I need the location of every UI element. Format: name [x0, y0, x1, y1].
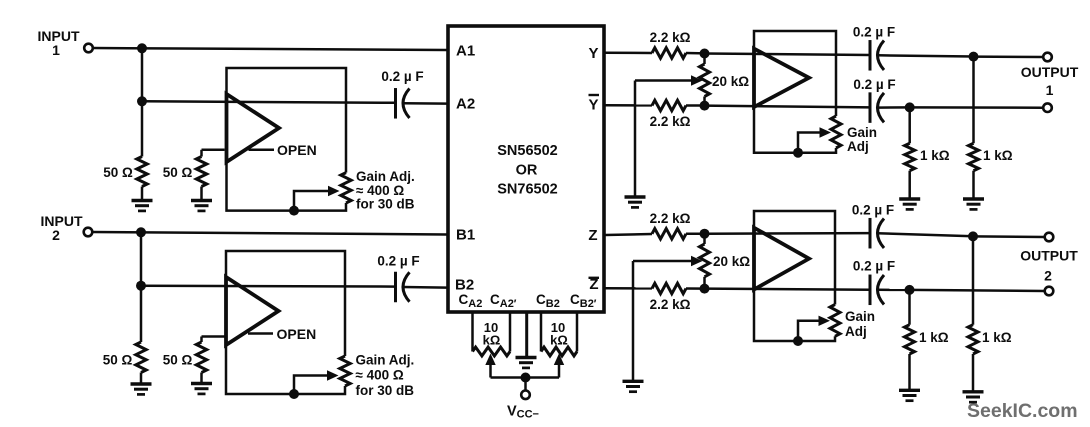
svg-text:0.2 µ F: 0.2 µ F [853, 77, 895, 92]
svg-text:B1: B1 [456, 227, 475, 244]
wiper arrow U4 [819, 316, 831, 326]
wire pin Z to resistor [606, 234, 653, 235]
wire OPEN stub U1 [249, 149, 275, 152]
op-amp U3 [754, 49, 809, 107]
svg-text:B2: B2 [455, 277, 474, 294]
wire cap to output node [878, 55, 974, 56]
feedback box U1 bottom [227, 162, 347, 211]
wire 20k pot bottom to node [703, 97, 706, 106]
capacitor 0.2uF B2 coupling [394, 272, 397, 303]
wire A2 line through amp to coupling cap [142, 101, 396, 103]
wire 20k wiper (Z) [633, 260, 692, 263]
junction node on input2 line [136, 227, 146, 237]
feedback box U3 top [754, 31, 836, 116]
capacitor 0.2uF (Zbar out) [869, 275, 872, 306]
wire junction down to B2 line [140, 232, 143, 285]
wire 1k to ground [908, 171, 911, 199]
potentiometer Gain Adj 400 ohm U2 [340, 356, 350, 386]
pin stub CB2 [540, 313, 543, 352]
svg-text:A2: A2 [456, 96, 475, 113]
svg-text:20 kΩ: 20 kΩ [713, 254, 750, 269]
wire resistor to ground [200, 373, 203, 384]
svg-text:2: 2 [52, 227, 60, 243]
wire wiper bus [491, 376, 560, 379]
resistor 1k (Z load) [968, 325, 978, 354]
svg-text:20 kΩ: 20 kΩ [712, 74, 749, 89]
svg-text:1 kΩ: 1 kΩ [919, 330, 949, 345]
svg-text:Y: Y [588, 97, 598, 114]
wiper arrow 10k B [554, 354, 564, 366]
svg-text:2: 2 [1044, 268, 1052, 284]
svg-text:1: 1 [1046, 82, 1054, 98]
wire junction down to resistor [140, 286, 143, 342]
ground [132, 199, 153, 202]
svg-text:2.2 kΩ: 2.2 kΩ [650, 114, 691, 129]
ground pin stub (center) [525, 313, 528, 358]
feedback box U2 left/top [226, 251, 345, 356]
ground (IC center pin) [516, 356, 537, 359]
svg-text:Z: Z [588, 227, 597, 244]
wire to VCC terminal [524, 378, 527, 391]
wire node to terminal [973, 235, 1045, 238]
ground (20k wiper) [625, 195, 646, 198]
wire node down to 1k (Y) [972, 57, 975, 144]
wire 20k wiper [635, 79, 692, 82]
junction node output1 bottom [905, 102, 915, 112]
wire cap to output node [878, 233, 974, 236]
wire resistor to node [686, 52, 705, 55]
svg-text:1: 1 [52, 42, 60, 58]
resistor 50 ohm (U1 bias) [196, 157, 206, 187]
wire Y node through amp to cap [705, 54, 871, 56]
wire 1k to ground [972, 171, 975, 199]
wiper arrow U2 [327, 370, 339, 380]
junction node output1 top [969, 52, 979, 62]
wire node down to 1k (Ybar) [908, 107, 911, 143]
svg-text:INPUT: INPUT [41, 213, 83, 229]
wiper arrow U1 [328, 186, 340, 196]
capacitor 0.2uF (Z out) [869, 218, 872, 249]
ground (1k Y) [963, 197, 984, 200]
resistor 1k (Ybar load) [905, 143, 915, 170]
svg-text:50 Ω: 50 Ω [163, 165, 193, 180]
svg-text:Adj: Adj [845, 324, 867, 339]
feedback box U4 top [754, 211, 835, 305]
potentiometer Gain Adj 400 ohm U1 [341, 173, 351, 203]
resistor 2.2k (Z) [652, 229, 686, 239]
wire wiper U2 [294, 376, 327, 395]
wire cap to output node [878, 289, 910, 292]
wiper arrow 20k [691, 75, 703, 85]
wire node to terminal [974, 55, 1044, 58]
IC SN56502/SN76502 body [448, 26, 604, 312]
resistor 50 ohm (input2 termination) [136, 342, 146, 373]
svg-text:≈ 400 Ω: ≈ 400 Ω [356, 368, 404, 383]
svg-text:OPEN: OPEN [277, 326, 317, 342]
input terminal 1 [84, 44, 93, 53]
wire resistor to node [686, 104, 705, 107]
wire node to 20k pot top [703, 54, 706, 65]
pin stub CA2p [509, 313, 512, 352]
terminal VCC- [521, 391, 530, 400]
ground (1k Z) [963, 390, 984, 393]
feedback box U1 left/top [227, 68, 347, 173]
svg-text:0.2 µ F: 0.2 µ F [852, 203, 894, 218]
svg-text:Gain Adj.: Gain Adj. [356, 353, 415, 368]
wire wiper U4 [798, 321, 819, 341]
svg-text:Gain: Gain [845, 309, 875, 324]
feedback box U2 bottom [226, 345, 345, 394]
op-amp U1 (unused half, OPEN) [227, 94, 280, 162]
svg-text:0.2 µ F: 0.2 µ F [381, 69, 423, 84]
svg-text:SN56502: SN56502 [497, 143, 557, 159]
wire node to terminal [910, 290, 1045, 291]
pin stub CA2 [471, 313, 474, 352]
wire input1 to pin A1 [93, 48, 447, 50]
resistor 2.2k (Zbar) [652, 283, 686, 293]
wire 50ohm#2 to op-amp U1 input [202, 149, 225, 152]
svg-text:1 kΩ: 1 kΩ [982, 330, 1012, 345]
junction node Z [700, 229, 710, 239]
ground [131, 382, 152, 385]
wire junction down to resistor [141, 101, 144, 156]
wire wiper B down [558, 365, 561, 378]
wire resistor#2 to ground [200, 187, 203, 201]
wire Z node through amp to cap [705, 232, 871, 235]
svg-text:2.2 kΩ: 2.2 kΩ [650, 30, 691, 45]
junction node Ybar [700, 101, 710, 111]
wire pin Y to resistor [606, 52, 653, 55]
wire resistor to ground [140, 373, 143, 385]
wire 50ohm#4 to op-amp U2 input [202, 335, 225, 338]
potentiometer 10k (A) [473, 347, 511, 356]
potentiometer 20k (Y/Ybar) [700, 64, 710, 97]
wire Zbar node through amp to cap [705, 289, 871, 290]
junction node VCC [521, 373, 531, 383]
wire node down to 1k (Zbar) [908, 290, 911, 325]
wire pin Ybar to resistor [606, 104, 653, 107]
output terminal 2 (Zbar) [1045, 287, 1054, 296]
output terminal 2 (Z) [1045, 233, 1054, 242]
junction node on B2 line [136, 281, 146, 291]
svg-text:0.2 µ F: 0.2 µ F [853, 258, 895, 273]
capacitor 0.2uF (Ybar out) [869, 92, 872, 123]
svg-text:kΩ: kΩ [483, 333, 501, 348]
junction node output2 bottom [905, 285, 915, 295]
svg-text:A1: A1 [456, 43, 475, 60]
svg-text:SeekIC.com: SeekIC.com [967, 400, 1078, 422]
svg-text:0.2 µ F: 0.2 µ F [377, 254, 419, 269]
resistor 1k (Y load) [969, 143, 979, 170]
wire 1k to ground (Z) [972, 354, 975, 392]
wire input2 to pin B1 [92, 232, 446, 235]
wire B2 line through amp to coupling cap [141, 284, 396, 287]
wire cap to output node [878, 106, 910, 109]
svg-text:Y: Y [588, 45, 598, 62]
potentiometer Gain Adj U4 [830, 305, 840, 337]
junction node Y [700, 49, 710, 59]
wire 50ohm#2 top [200, 150, 203, 157]
junction node output2 top [968, 231, 978, 241]
svg-text:OUTPUT: OUTPUT [1021, 64, 1079, 80]
resistor 50 ohm (input1 termination) [137, 157, 147, 187]
output terminal 1 (Ybar) [1043, 103, 1052, 112]
potentiometer 10k (B) [541, 347, 577, 356]
capacitor 0.2uF A2 coupling [394, 88, 397, 119]
wire 20k pot bottom to node (Z) [703, 277, 706, 289]
wire cap to pin B2 [403, 286, 447, 289]
ground (20k wiper Z) [623, 380, 644, 383]
svg-text:OPEN: OPEN [277, 142, 317, 158]
svg-text:1 kΩ: 1 kΩ [920, 148, 950, 163]
wire wiper U3 [798, 133, 820, 153]
op-amp U2 (unused half, OPEN) [226, 277, 279, 345]
svg-text:Gain Adj.: Gain Adj. [356, 169, 415, 184]
wire OPEN stub U2 [248, 332, 273, 335]
svg-text:50 Ω: 50 Ω [103, 353, 133, 368]
junction node wiper U3 [793, 148, 803, 158]
svg-text:2.2 kΩ: 2.2 kΩ [650, 297, 691, 312]
capacitor 0.2uF (Y out) [869, 40, 872, 71]
ground (1k Zbar) [899, 389, 920, 392]
svg-text:2.2 kΩ: 2.2 kΩ [650, 211, 691, 226]
wire wiper U1 [294, 191, 328, 211]
junction node on A2 line [137, 96, 147, 106]
junction node wiper U2 [289, 389, 299, 399]
wire resistor to ground [141, 187, 144, 201]
svg-text:SN76502: SN76502 [497, 182, 557, 198]
potentiometer 20k (Z/Zbar) [700, 244, 710, 277]
feedback box U3 bottom [754, 107, 836, 153]
resistor 2.2k (Ybar) [652, 100, 686, 110]
svg-text:kΩ: kΩ [550, 333, 568, 348]
wire cap to pin A2 [403, 102, 447, 105]
wire node to terminal [910, 106, 1043, 109]
pin stub CB2p [576, 313, 579, 352]
ground [191, 199, 212, 202]
wire 1k to ground (Zbar) [908, 354, 911, 390]
svg-text:1 kΩ: 1 kΩ [983, 148, 1013, 163]
resistor 1k (Zbar load) [905, 325, 915, 354]
wiper arrow 20k (Z) [691, 256, 703, 266]
wire pin Zbar to resistor [606, 287, 653, 290]
junction node wiper U4 [793, 336, 803, 346]
wiper arrow 10k A [485, 354, 495, 366]
ground (1k Ybar) [899, 197, 920, 200]
resistor 2.2k (Y) [652, 48, 686, 58]
resistor 50 ohm (U2 bias) [196, 342, 206, 373]
wire Ybar node through amp to cap [705, 106, 871, 108]
wire wiper A down [489, 365, 492, 378]
junction node wiper U1 [289, 206, 299, 216]
junction node on input1 line [137, 43, 147, 53]
input terminal 2 [84, 228, 93, 237]
wire wiper to ground (Z) [632, 261, 635, 381]
op-amp U4 [754, 228, 809, 290]
ground [191, 382, 212, 385]
svg-text:OUTPUT: OUTPUT [1020, 248, 1078, 264]
wire resistor to node [686, 232, 705, 235]
svg-text:0.2 µ F: 0.2 µ F [853, 25, 895, 40]
wire wiper to ground [634, 81, 637, 198]
wire 50ohm#4 top [200, 337, 203, 343]
svg-text:for 30 dB: for 30 dB [356, 197, 415, 212]
feedback box U4 bottom [754, 290, 835, 342]
wire junction down to A2 line [141, 48, 144, 101]
output terminal 1 (Y) [1043, 53, 1052, 62]
svg-text:Adj: Adj [847, 139, 869, 154]
wire resistor to node [686, 287, 705, 290]
wire node down to 1k (Z) [972, 236, 975, 324]
svg-text:Gain: Gain [847, 125, 877, 140]
potentiometer Gain Adj U3 [831, 116, 841, 148]
svg-text:50 Ω: 50 Ω [103, 165, 133, 180]
svg-text:for 30 dB: for 30 dB [356, 383, 415, 398]
svg-text:50 Ω: 50 Ω [163, 353, 193, 368]
wiper arrow U3 [820, 127, 832, 137]
svg-text:OR: OR [516, 163, 538, 179]
wire node to 20k pot top (Z) [703, 234, 706, 244]
junction node Zbar [700, 284, 710, 294]
